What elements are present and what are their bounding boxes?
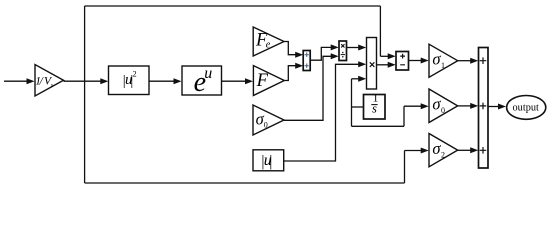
wire loop right vertical	[379, 6, 381, 56]
product block tall times	[367, 38, 377, 90]
wire integrator net to sigma0-right	[404, 105, 421, 107]
wire integrator net underpass	[352, 125, 405, 127]
gain triangle sigma2	[429, 134, 458, 167]
svg-text:0: 0	[264, 121, 268, 130]
wire eu to F gain	[222, 80, 246, 82]
svg-text:1: 1	[441, 61, 445, 70]
gain triangle sigma0 left	[253, 105, 284, 135]
integrator block 1/s	[364, 92, 386, 119]
svg-text:s: s	[372, 102, 377, 116]
gain triangle Fe	[253, 27, 284, 56]
arrowhead into multdiv divide	[331, 53, 339, 59]
wire gain to u2 block	[64, 80, 102, 82]
wire loop bottom edge	[85, 182, 405, 184]
svg-text:2: 2	[133, 70, 137, 79]
arrowhead into eu block	[174, 78, 182, 84]
gain triangle 1/Vs	[35, 65, 64, 97]
wire integrator net to product bottom	[352, 78, 360, 80]
arrowhead into sigma0-right	[421, 103, 429, 109]
wire integrator net right vertical	[403, 106, 405, 126]
gain triangle sigma0 right	[429, 89, 458, 123]
arrowhead into F gain	[245, 78, 253, 84]
wire Fe out to sum1	[284, 42, 296, 55]
wire sigma0-left out to divide input	[284, 56, 332, 120]
arrowhead into sum2 plus	[388, 53, 396, 59]
svg-text:F: F	[256, 71, 269, 91]
wire multdiv out to product	[347, 47, 360, 49]
svg-text:u: u	[204, 65, 212, 82]
block abs u	[253, 150, 284, 171]
gain triangle sigma1	[429, 44, 458, 77]
arrowhead into final sum bottom	[470, 147, 478, 153]
wire loop vertical left	[84, 6, 86, 183]
wire integrator net vertical	[351, 79, 353, 127]
wire product out to sum2	[377, 64, 390, 66]
arrowhead into gain 1/Vs	[27, 78, 35, 84]
arrowhead into sum1 bottom	[295, 63, 303, 69]
wire stub into plus of sum2	[380, 55, 388, 57]
wire sigma2 out to final sum	[458, 149, 471, 151]
svg-text:2: 2	[441, 151, 445, 160]
wire F out to sum1	[284, 66, 296, 81]
arrowhead into sum1 top	[295, 52, 303, 58]
arrowhead into sigma2	[421, 148, 429, 154]
wire stub into sigma2	[405, 150, 422, 152]
svg-text:|: |	[269, 153, 272, 170]
svg-text:e: e	[266, 39, 271, 50]
arrowhead into product bottom	[358, 76, 366, 82]
wire sigma0-right out to final sum	[458, 105, 471, 107]
svg-text:0: 0	[441, 106, 445, 115]
wire abs-u out to product middle	[284, 64, 360, 161]
sum block final	[479, 48, 489, 169]
gain triangle F	[253, 66, 284, 96]
wire input	[4, 80, 28, 82]
arrowhead into sum2 minus	[388, 62, 396, 68]
arrowhead into final sum top	[470, 58, 478, 64]
svg-text:output: output	[513, 102, 539, 113]
arrowhead into u2 block	[100, 78, 108, 84]
arrowhead into final sum middle	[470, 103, 478, 109]
wire final sum to output	[488, 106, 499, 108]
product block times divide	[339, 41, 347, 61]
wire sigma1 out to final sum	[458, 60, 471, 62]
wire u2 to eu block	[149, 80, 174, 82]
sum block S2 plus minus	[396, 52, 409, 71]
wire sum2 out to sigma1	[409, 60, 422, 62]
wire integrator net stub	[352, 106, 364, 108]
arrowhead into output oval	[498, 104, 506, 110]
arrowhead into sigma1	[421, 58, 429, 64]
wire sum1 out to mult-div	[311, 47, 332, 60]
output port oval	[507, 96, 546, 120]
arrowhead into multdiv times	[331, 44, 339, 50]
block e to u	[182, 65, 222, 98]
wire loop bottom-right vertical	[404, 151, 406, 184]
sum block S1 plus plus	[303, 51, 310, 71]
block u squared	[109, 66, 150, 95]
arrowhead into product middle	[358, 61, 366, 67]
arrowhead into product top	[358, 45, 366, 51]
wire loop top edge	[85, 5, 381, 7]
